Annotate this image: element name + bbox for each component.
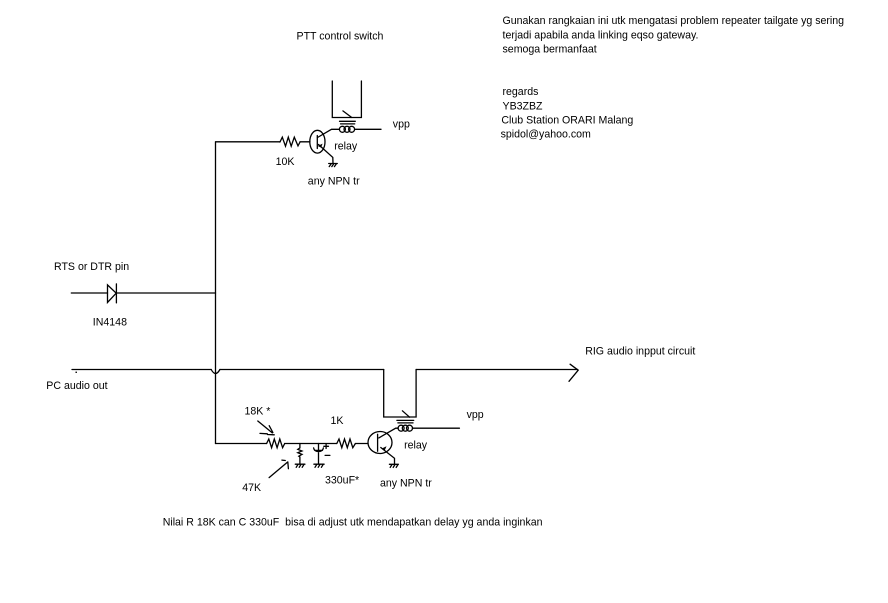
capacitor C1 330uF lead — [318, 444, 320, 450]
wire coil1 to vpp — [355, 128, 381, 130]
svg-text:vpp: vpp — [467, 409, 484, 421]
relay K1 coil circles — [339, 126, 345, 132]
resistor R1 10K zigzag — [280, 137, 300, 146]
svg-text:any NPN tr: any NPN tr — [380, 478, 432, 490]
svg-text:relay: relay — [334, 140, 358, 152]
capacitor C1 curved plate — [314, 448, 324, 452]
relay K2 coil circles — [398, 425, 404, 431]
svg-text:1K: 1K — [331, 415, 344, 427]
wire bottom horizontal — [216, 443, 369, 445]
relay K2 contact bracket — [384, 370, 416, 418]
diode D1 triangle — [108, 285, 117, 303]
relay K1 contact bracket — [332, 81, 361, 118]
stray dot — [76, 372, 77, 373]
transistor Q2 circle — [368, 432, 392, 454]
svg-text:spidol@yahoo.com: spidol@yahoo.com — [501, 129, 591, 141]
transistor Q2 base bar — [377, 434, 379, 451]
svg-text:18K *: 18K * — [245, 406, 271, 418]
capacitor C1 top plate — [315, 449, 323, 451]
transistor Q1 emitter arrowhead — [318, 144, 323, 148]
svg-text:any NPN tr: any NPN tr — [308, 176, 360, 188]
plus sign capacitor — [324, 444, 329, 448]
svg-text:10K: 10K — [276, 156, 295, 168]
svg-text:RTS or DTR pin: RTS or DTR pin — [54, 261, 129, 273]
transistor Q1 emitter — [319, 145, 334, 164]
svg-text:PC audio out: PC audio out — [46, 380, 107, 392]
note text block top right — [501, 15, 845, 141]
resistor R4 1K zigzag — [337, 439, 356, 448]
minus sign capacitor — [325, 454, 330, 456]
svg-text:relay: relay — [404, 440, 428, 452]
transistor Q1 circle — [310, 130, 325, 153]
relay K1 core lines — [340, 121, 356, 124]
capacitor C1 lower lead — [318, 453, 320, 464]
transistor Q1 base bar — [316, 136, 318, 149]
svg-text:vpp: vpp — [393, 119, 410, 131]
diode D1 cathode bar — [115, 284, 117, 303]
wire diode anode — [71, 292, 107, 294]
transistor Q1 collector — [318, 129, 340, 137]
relay K2 switch lever — [402, 411, 409, 417]
ground G1 under Q1 — [329, 164, 338, 167]
svg-text:terjadi apabila anda linking e: terjadi apabila anda linking eqso gatewa… — [503, 29, 699, 41]
wire PC audio left — [72, 369, 211, 371]
svg-text:regards: regards — [503, 86, 539, 98]
wire hop over bus — [211, 370, 220, 374]
wire audio right to arrow — [416, 369, 577, 371]
svg-text:semoga bermanfaat: semoga bermanfaat — [503, 44, 597, 56]
svg-text:PTT control switch: PTT control switch — [297, 30, 384, 42]
transistor Q2 collector — [379, 428, 398, 438]
relay K2 core lines — [397, 420, 414, 423]
transistor Q2 emitter — [381, 448, 395, 465]
ground G3 under 47K — [295, 464, 305, 467]
svg-text:Club Station ORARI Malang: Club Station ORARI Malang — [501, 115, 633, 127]
wire audio middle — [220, 369, 384, 371]
relay K1 switch lever — [343, 111, 352, 118]
svg-text:330uF*: 330uF* — [325, 475, 359, 487]
wire diode to bus — [116, 292, 215, 294]
ground G4 under capacitor — [314, 464, 324, 467]
svg-text:YB3ZBZ: YB3ZBZ — [503, 100, 544, 112]
wire coil2 to vpp — [413, 427, 460, 429]
resistor R2 18K zigzag — [267, 439, 285, 448]
svg-text:Nilai R 18K can C 330uF bisa: Nilai R 18K can C 330uF bisa di adjust u… — [163, 516, 543, 528]
arrowhead RIG audio — [569, 364, 578, 381]
pointer arrow 47K — [269, 460, 288, 478]
ground G2 under Q2 — [389, 464, 398, 467]
wire top base segment — [216, 141, 311, 143]
svg-text:IN4148: IN4148 — [93, 317, 127, 329]
pointer arrow 18K — [258, 421, 274, 435]
svg-text:Gunakan rangkaian ini utk meng: Gunakan rangkaian ini utk mengatasi prob… — [503, 15, 845, 27]
resistor R3 47K vertical — [298, 444, 302, 464]
wire main vertical bus — [215, 142, 217, 444]
svg-text:RIG audio inpput circuit: RIG audio inpput circuit — [585, 345, 695, 357]
svg-text:47K: 47K — [242, 482, 261, 494]
transistor Q2 emitter arrowhead — [382, 446, 387, 450]
